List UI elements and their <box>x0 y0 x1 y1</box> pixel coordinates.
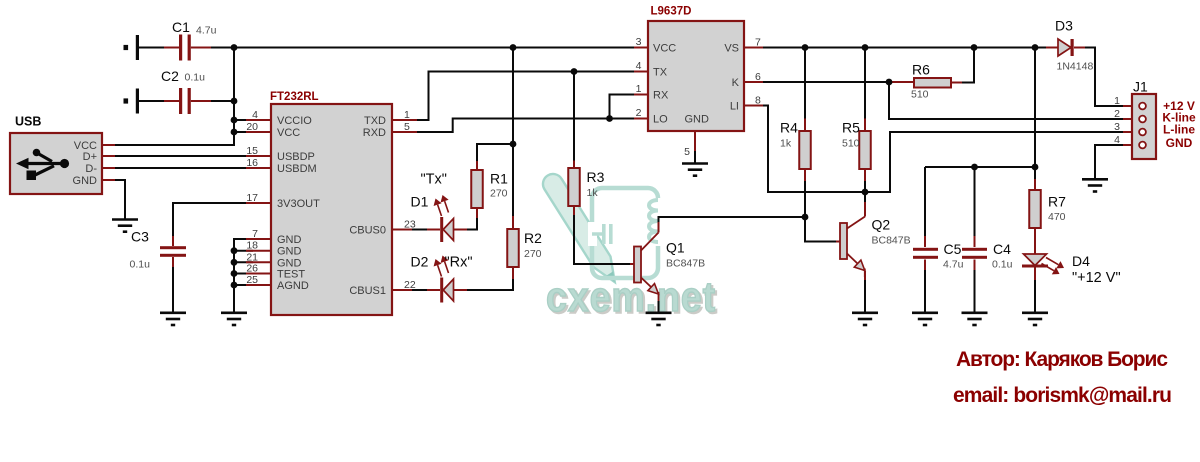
diode D3 1N4148 <box>1058 39 1074 56</box>
wire: C5/C4/R7 bottom rail <box>925 166 1035 168</box>
svg-text:Автор: Каряков Борис: Автор: Каряков Борис <box>956 348 1168 371</box>
wire: C2 left lead <box>139 100 164 102</box>
wire: D2 anode to R2 bottom <box>467 279 513 290</box>
FT232RL right pin names <box>349 115 386 297</box>
svg-text:470: 470 <box>1048 211 1066 223</box>
wire: USB GND down <box>115 180 125 219</box>
wire: R3 top lead to TX line <box>573 72 575 161</box>
svg-text:17: 17 <box>246 192 258 204</box>
svg-text:1N4148: 1N4148 <box>1057 61 1094 73</box>
junction dot LI / R5 / Q2 collector <box>862 189 869 196</box>
svg-text:RX: RX <box>653 90 669 102</box>
wire: Q2 collector stub <box>864 192 866 202</box>
svg-text:USBDP: USBDP <box>277 151 315 163</box>
wire: J1 pin 4 to ground <box>1095 145 1123 179</box>
wire: RX pin branch <box>610 95 635 119</box>
svg-text:18: 18 <box>246 240 258 252</box>
red stub: R6 leads <box>889 81 914 83</box>
svg-text:Q2: Q2 <box>872 217 891 233</box>
ground (Q2 emitter) <box>852 313 878 325</box>
svg-text:R3: R3 <box>587 169 605 185</box>
svg-text:R1: R1 <box>490 171 508 187</box>
svg-text:C1: C1 <box>172 19 190 35</box>
svg-text:TXD: TXD <box>364 115 386 127</box>
junction dots bottom rail <box>971 164 978 171</box>
red stub: FT232RL right pins <box>392 119 417 121</box>
svg-text:LO: LO <box>653 114 668 126</box>
negative terminal of C2 <box>124 89 140 114</box>
red stub: Q2 collector lead <box>864 202 866 217</box>
svg-text:email: borismk@mail.ru: email: borismk@mail.ru <box>953 384 1172 407</box>
ground (Q1 emitter) <box>646 313 672 325</box>
wire: R4 top lead from rail <box>804 48 806 119</box>
svg-text:CBUS1: CBUS1 <box>349 285 386 297</box>
wire: +5V vertical bus down to USB VCC <box>115 48 234 146</box>
wire: C1 left lead <box>139 47 164 49</box>
svg-text:D3: D3 <box>1055 18 1073 34</box>
svg-text:D2: D2 <box>411 254 429 270</box>
wire: TXD to L9637D TX <box>417 72 634 121</box>
wire: R5 top lead from rail <box>864 48 866 119</box>
svg-text:D-: D- <box>85 163 97 175</box>
svg-text:2: 2 <box>1114 108 1120 120</box>
FT232RL left pin names <box>277 115 320 292</box>
svg-text:270: 270 <box>490 188 508 200</box>
svg-text:RXD: RXD <box>363 127 386 139</box>
wire: FT232RL VCCIO pin 4 to bus <box>234 119 253 121</box>
wire: R3 bottom lead to Q1 base <box>574 215 630 264</box>
capacitor C2 plates <box>179 88 182 114</box>
svg-text:VCC: VCC <box>653 43 676 55</box>
red stub: Q2 base lead <box>836 241 840 243</box>
negative terminal of C1 <box>124 35 140 60</box>
capacitor C5 plates <box>913 248 938 251</box>
wire: Q1 emitter to ground <box>658 301 660 312</box>
junction dot TX line / R3 <box>571 68 578 75</box>
svg-text:BC847B: BC847B <box>666 258 705 270</box>
USB logo icon <box>16 149 69 180</box>
svg-text:25: 25 <box>246 274 258 286</box>
wire: C4 top lead <box>974 167 976 236</box>
svg-text:4.7u: 4.7u <box>196 25 217 37</box>
red stub: J1 pins <box>1123 105 1140 107</box>
svg-text:GND: GND <box>73 175 98 187</box>
wire: FT GND pins bus <box>234 239 253 312</box>
red stub: R7 top lead <box>1034 179 1036 190</box>
wire: R1 top lead to bus <box>477 144 513 161</box>
wire: 3V3OUT to C3 <box>173 203 253 236</box>
red stub: L9637D left pins <box>634 47 648 49</box>
wire: rail down to R7 <box>1034 48 1036 180</box>
red stub: D1 leads <box>427 229 440 231</box>
svg-text:D+: D+ <box>83 151 97 163</box>
red stub: D2 leads <box>427 289 440 291</box>
wire: R4 bottom lead down to Q2 base <box>805 181 836 242</box>
svg-text:VS: VS <box>724 43 739 55</box>
wire: R6 right lead up to rail <box>962 48 974 83</box>
svg-text:23: 23 <box>404 219 416 231</box>
svg-text:8: 8 <box>755 95 761 107</box>
svg-text:7: 7 <box>252 228 258 240</box>
svg-text:GND: GND <box>277 246 302 258</box>
svg-text:R6: R6 <box>912 62 930 78</box>
ground (D4) <box>1022 313 1048 325</box>
FT232RL left pin numbers <box>246 109 258 286</box>
transistor Q1 BC847B <box>634 233 659 302</box>
svg-text:D4: D4 <box>1072 253 1090 269</box>
capacitor C3 plates <box>160 246 186 249</box>
svg-text:4: 4 <box>1114 134 1120 146</box>
wire: C5 top lead <box>924 167 926 236</box>
svg-text:1: 1 <box>636 83 642 95</box>
svg-text:0.1u: 0.1u <box>185 72 206 84</box>
svg-text:J1: J1 <box>1133 79 1148 95</box>
svg-text:R4: R4 <box>780 120 798 136</box>
wire: USB D+ to USBDP <box>115 155 246 157</box>
wire: D4 cathode lead to ground <box>1034 280 1036 312</box>
svg-text:510: 510 <box>911 89 929 101</box>
red stub: C4 leads <box>974 236 976 247</box>
svg-text:TEST: TEST <box>277 269 305 281</box>
svg-text:4.7u: 4.7u <box>943 259 964 271</box>
svg-text:GND: GND <box>277 257 302 269</box>
L9637D pin numbers <box>636 36 761 158</box>
FT232RL right pin numbers <box>404 109 416 291</box>
svg-text:5: 5 <box>684 146 690 158</box>
wire: LI line from pin 8 to J1 pin 3 <box>763 106 1123 193</box>
ground (USB) <box>112 220 138 232</box>
red stub: L9637D GND pin 5 <box>694 131 696 151</box>
svg-text:0.1u: 0.1u <box>130 259 151 271</box>
svg-text:C5: C5 <box>944 241 962 257</box>
svg-text:R2: R2 <box>524 230 542 246</box>
svg-text:GND: GND <box>277 234 302 246</box>
resistor R5 body <box>859 131 871 169</box>
svg-text:15: 15 <box>246 145 258 157</box>
svg-text:R7: R7 <box>1048 194 1066 210</box>
svg-text:7: 7 <box>755 37 761 49</box>
svg-text:510: 510 <box>842 138 860 150</box>
USB pin names <box>73 140 98 187</box>
red stub: C3 leads <box>172 236 174 246</box>
svg-text:TX: TX <box>653 67 668 79</box>
svg-text:GND: GND <box>685 114 710 126</box>
ground (J1 pin 4) <box>1082 179 1108 191</box>
svg-text:2: 2 <box>636 107 642 119</box>
red stub: C1 leads <box>164 47 179 49</box>
wire: FT232RL VCC pin 20 to bus <box>234 131 253 133</box>
junction dot rail / R1R2 bus <box>510 44 517 51</box>
junction dots FT GND bus <box>231 247 238 254</box>
svg-text:CBUS0: CBUS0 <box>349 225 386 237</box>
svg-text:20: 20 <box>246 121 258 133</box>
IC U1 FT232RL body <box>271 104 392 315</box>
junction dot RX / LO line <box>606 115 613 122</box>
svg-text:VCC: VCC <box>277 127 300 139</box>
LED D4 <box>1022 254 1064 274</box>
svg-text:VCCIO: VCCIO <box>277 115 312 127</box>
svg-text:3V3OUT: 3V3OUT <box>277 198 320 210</box>
wire: CBUS1 to LED D2 <box>412 289 427 291</box>
svg-text:0.1u: 0.1u <box>992 259 1013 271</box>
junction dot K line / R6 <box>886 79 893 86</box>
wire: RXD to LO line <box>417 119 634 133</box>
red stub: R2 leads <box>512 216 514 229</box>
wire: Q2 emitter to ground <box>864 280 866 312</box>
resistor R3 body <box>568 168 580 206</box>
red stub: C5 leads <box>924 236 926 247</box>
svg-text:LI: LI <box>730 101 739 113</box>
capacitor C1 plates <box>179 35 182 61</box>
wire: C3 lower lead to ground <box>172 267 174 312</box>
resistor R2 body <box>507 229 519 267</box>
svg-text:1: 1 <box>404 109 410 121</box>
svg-text:FT232RL: FT232RL <box>270 91 319 103</box>
connector J1 body <box>1132 94 1156 159</box>
ground (L9637D pin 5) <box>682 164 708 176</box>
wire: C1 right lead to +5V junction <box>211 47 234 49</box>
wire: USB D- to USBDM <box>115 167 246 169</box>
svg-text:"Rx": "Rx" <box>445 255 473 271</box>
red stub: R4 leads <box>804 119 806 132</box>
wire: +12V rail VS to D3 <box>763 47 1046 49</box>
LED D2 <box>434 256 454 303</box>
svg-text:GND: GND <box>1166 136 1193 150</box>
capacitor C4 plates <box>962 248 987 251</box>
resistor R7 body <box>1029 190 1041 228</box>
wire: D3 cathode to J1 pin 1 <box>1085 48 1123 107</box>
svg-text:BC847B: BC847B <box>872 235 911 247</box>
wire: C2 right lead to junction <box>211 100 234 102</box>
red stub: D4 cathode lead <box>1034 268 1036 281</box>
junction dots +5V bus <box>231 44 238 51</box>
red stub: Q1 collector lead <box>658 222 660 233</box>
wire: GND pin 18 stub <box>234 250 253 252</box>
transistor Q2 BC847B <box>840 217 865 278</box>
svg-text:26: 26 <box>246 263 258 275</box>
svg-text:L9637D: L9637D <box>651 6 692 18</box>
svg-text:D1: D1 <box>411 194 429 210</box>
svg-text:6: 6 <box>755 71 761 83</box>
svg-text:4: 4 <box>252 109 258 121</box>
svg-text:"+12 V": "+12 V" <box>1072 270 1121 286</box>
red stub: USB pins <box>102 144 115 146</box>
svg-text:1: 1 <box>1114 95 1120 107</box>
red stub: R5 leads <box>864 119 866 132</box>
resistor R6 body <box>914 78 951 88</box>
junction dot Q1 collector / R4 <box>802 214 809 221</box>
ground (C5) <box>912 313 938 325</box>
svg-text:"Tx": "Tx" <box>421 172 447 188</box>
wire: K line down to J1 pin 2 <box>889 82 1123 119</box>
svg-text:Q1: Q1 <box>666 240 685 256</box>
svg-text:1k: 1k <box>587 187 599 199</box>
wire: C5 bottom lead to ground <box>924 270 926 312</box>
wire: K line from L9637D to R6 junction <box>763 81 901 83</box>
USB connector body <box>10 133 102 194</box>
red stub: D3 leads <box>1046 47 1058 49</box>
svg-text:AGND: AGND <box>277 280 309 292</box>
J1 pin circles <box>1139 103 1146 149</box>
svg-text:USBDM: USBDM <box>277 163 317 175</box>
ground (C4) <box>962 313 988 325</box>
IC U2 L9637D body <box>648 21 744 131</box>
svg-text:3: 3 <box>636 36 642 48</box>
svg-text:USB: USB <box>15 115 41 129</box>
red stub: Q2 emitter lower lead <box>864 271 866 280</box>
svg-text:3: 3 <box>1114 121 1120 133</box>
cxem.net watermark logo <box>543 174 718 322</box>
wire: +5V rail from junction to L9637D VCC <box>234 47 634 49</box>
red stub: R7 to D4 lead <box>1034 223 1036 254</box>
J1 pin numbers <box>1114 95 1120 146</box>
resistor R4 body <box>799 131 811 169</box>
junction dots +12V rail <box>802 44 809 51</box>
wire: VCC/R1/R2 vertical bus x=513 <box>512 48 514 217</box>
resistor R1 body <box>471 170 483 208</box>
L9637D pin names <box>653 43 740 126</box>
svg-text:C4: C4 <box>993 241 1011 257</box>
red stub: FT232RL left pins <box>246 119 271 121</box>
svg-text:4: 4 <box>636 60 642 72</box>
red stub: C2 leads <box>164 100 179 102</box>
svg-text:270: 270 <box>524 248 542 260</box>
svg-text:21: 21 <box>246 251 258 263</box>
svg-text:C3: C3 <box>131 229 149 245</box>
wire: TEST pin 26 stub <box>234 273 253 275</box>
red stub: Q1 base lead <box>630 263 634 265</box>
wire: Q1 collector line to R4/Q2-base node <box>659 217 806 222</box>
wire: C4 bottom lead to ground <box>974 270 976 312</box>
svg-text:R5: R5 <box>842 120 860 136</box>
wire: L9637D GND pin 5 lead <box>694 151 696 163</box>
svg-text:C2: C2 <box>161 68 179 84</box>
wire: AGND pin 25 stub <box>234 284 253 286</box>
svg-text:1k: 1k <box>780 138 792 150</box>
ground (C3) <box>160 313 186 325</box>
junction dot R1 top lead <box>510 141 517 148</box>
svg-text:22: 22 <box>404 279 416 291</box>
svg-text:L-line: L-line <box>1163 123 1195 137</box>
wire: GND pin 21 stub <box>234 261 253 263</box>
LED D1 <box>434 195 454 242</box>
red stub: R3 leads <box>573 161 575 169</box>
red stub: R1 leads <box>476 161 478 170</box>
wire: R5 bottom lead to LI node <box>864 181 866 192</box>
svg-text:cxem.net: cxem.net <box>546 273 716 320</box>
wire: CBUS0 to LED D1 <box>412 229 427 231</box>
ground (FT232RL GND pins) <box>221 313 247 325</box>
wire: R1 bottom lead to CBUS0 line <box>467 218 477 230</box>
svg-text:K: K <box>732 77 740 89</box>
svg-text:5: 5 <box>404 121 410 133</box>
red stub: L9637D right pins <box>744 47 763 49</box>
svg-text:16: 16 <box>246 157 258 169</box>
